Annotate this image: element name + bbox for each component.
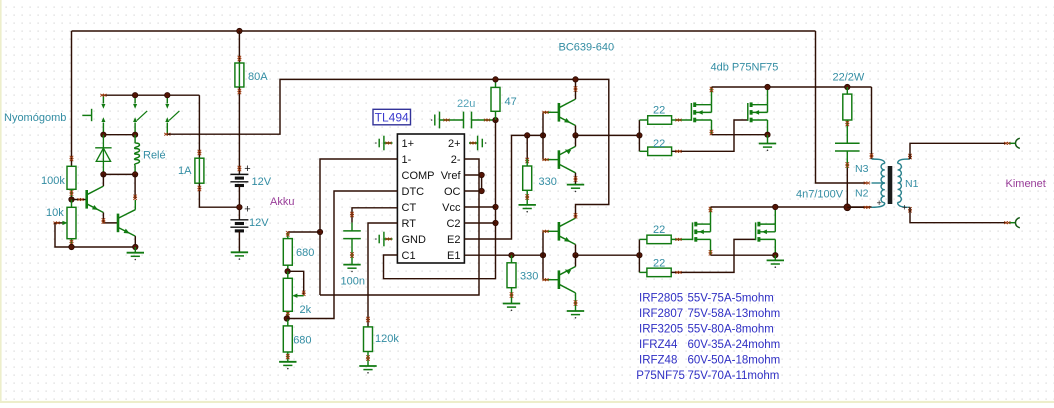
svg-text:Relé: Relé (143, 150, 166, 162)
wire Q5-Q6 base tie (542, 231, 544, 279)
svg-text:N3: N3 (855, 163, 869, 175)
svg-text:E2: E2 (447, 234, 460, 246)
resistor 120k (364, 327, 373, 352)
junction M4 drain (773, 204, 778, 209)
junction rail-K1b (165, 93, 170, 98)
transistor Q6 BC640 (558, 270, 561, 289)
svg-text:330: 330 (520, 271, 538, 283)
wire Q3-Q4 base tie (542, 112, 544, 159)
ground lower MOSFETs (774, 255, 776, 260)
connector output top (1004, 142, 1008, 145)
junction 100k-10k-base (69, 197, 74, 202)
capacitor 4n7/100V (835, 142, 860, 144)
svg-text:22: 22 (653, 105, 665, 117)
svg-text:2+: 2+ (448, 138, 461, 150)
svg-text:Akku: Akku (270, 196, 294, 208)
wire lower sources (711, 254, 776, 256)
resistor 22/2W (846, 87, 848, 94)
transistor Q2 (117, 214, 120, 233)
svg-text:2-: 2- (451, 154, 461, 166)
lower drain rail (711, 206, 872, 208)
junction top rail-80A (237, 28, 242, 33)
wire N2 bottom lead (847, 206, 866, 208)
ground Q4 (567, 184, 584, 186)
junction OC (479, 188, 484, 193)
resistor 680 upper (283, 239, 292, 266)
resistor 22 gate M1 (639, 119, 647, 121)
transistor Q3 BC639 (558, 103, 561, 122)
wire C1 wrap to C2/Vcc (384, 120, 496, 279)
wire switch rail to 1A fuse (198, 95, 200, 158)
svg-text:47: 47 (505, 96, 517, 108)
transistor Q4 BC640 (558, 150, 561, 169)
wire CT to 100n (352, 208, 397, 223)
resistor 22 gate M3 (639, 238, 647, 240)
wire M1 bulk-drain vertical (711, 105, 713, 113)
relay contact K1b (166, 95, 168, 103)
wire divider top (288, 231, 320, 233)
wire left rail down to 100k (71, 31, 73, 166)
wire upper sources (712, 134, 768, 136)
junction 680a-2k (285, 269, 290, 274)
canvas edge bottom (0, 401, 1054, 403)
wire 2- feedback (320, 159, 479, 295)
junction 10k-rail (69, 244, 74, 249)
junction K1a-relaycoil (132, 132, 137, 137)
junction gate splitter lower (637, 253, 642, 258)
ground upper MOSFETs (767, 135, 769, 144)
svg-text:+: + (244, 204, 250, 216)
junction 2k-680b-DTC (284, 316, 289, 321)
svg-text:22: 22 (653, 258, 665, 270)
wire Q5 emitter junction (575, 245, 577, 256)
svg-text:100n: 100n (341, 276, 365, 288)
junction upper base tie (540, 133, 545, 138)
trimmer 10k (67, 207, 76, 238)
svg-text:IRF280555V-75A-5mohm: IRF280555V-75A-5mohm (639, 292, 774, 304)
wire Q1 emitter to Q2 base (103, 213, 118, 223)
MOSFET M1 P75NF75 (690, 103, 692, 121)
svg-text:TL494: TL494 (375, 111, 409, 125)
wire Q4 collector down (575, 173, 577, 185)
canvas edge left (0, 0, 2, 403)
IC U1 TL494 body (397, 134, 464, 263)
svg-text:COMP: COMP (402, 170, 435, 182)
junction lower sources (773, 253, 778, 258)
capacitor stub at 2+ (485, 142, 487, 144)
svg-text:IRFZ4860V-50A-18mohm: IRFZ4860V-50A-18mohm (639, 354, 780, 366)
junction C2 (493, 220, 498, 225)
lead 680a bottom (287, 265, 289, 271)
svg-text:OC: OC (444, 186, 461, 198)
wire M3 drain to rail (710, 207, 712, 224)
junction 1- divider (317, 229, 322, 234)
svg-text:Vref: Vref (441, 170, 462, 182)
wire under button and K1a (103, 134, 135, 136)
transformer TR1 primary N3 (864, 182, 868, 185)
wire C2 pin (464, 222, 495, 224)
lead 2k bottom (287, 311, 289, 318)
transformer core (888, 166, 893, 204)
lead 680a top (287, 232, 289, 239)
wire gate splitter lower (638, 239, 640, 272)
junction rail-K1a (132, 93, 137, 98)
ground 330 upper (526, 190, 528, 205)
ground 330 lower (511, 288, 513, 304)
wire Q5 collector (575, 215, 577, 219)
ground Q6 (567, 310, 584, 312)
junction lower 330 (509, 253, 514, 258)
node +12V top rail (72, 30, 816, 32)
wire gate splitter upper (638, 120, 640, 151)
resistor 330 lower pulldown (511, 255, 513, 263)
wire M1 source down (711, 120, 713, 135)
10k wiper arrow (55, 222, 63, 224)
battery B1 12V (230, 173, 248, 175)
wire Q4 base (543, 159, 559, 161)
wire wiper down and bottom rail (55, 223, 135, 247)
wire Q2 emitter down (134, 236, 136, 247)
svg-text:4n7/100V: 4n7/100V (796, 189, 844, 201)
svg-text:100k: 100k (41, 175, 65, 187)
junction Vcc (493, 204, 498, 209)
junction upper 330 (525, 133, 530, 138)
svg-text:IFRZ4460V-35A-24mohm: IFRZ4460V-35A-24mohm (639, 339, 780, 351)
relay coil Rele (134, 135, 136, 144)
wire N1 bottom to output (910, 207, 1006, 222)
svg-text:P75NF7575V-70A-11mohm: P75NF7575V-70A-11mohm (636, 370, 779, 382)
svg-text:E1: E1 (447, 250, 460, 262)
wire coil to Q2 collector (134, 174, 136, 199)
pushbutton actuator (82, 114, 91, 116)
junction diode bottom (101, 172, 106, 177)
wire upper driver out to gates (576, 134, 640, 136)
MOSFET M3 P75NF75 (692, 222, 694, 240)
lead 10k bottom (71, 239, 73, 247)
svg-text:22/2W: 22/2W (833, 71, 865, 83)
svg-text:1A: 1A (178, 165, 192, 177)
wire DTC to divider (287, 191, 398, 319)
svg-text:C1: C1 (402, 250, 416, 262)
junction gate splitter upper (637, 133, 642, 138)
trimmer 2k (287, 271, 289, 278)
wire 80A to battery (238, 87, 240, 174)
connector output bottom (1004, 221, 1008, 224)
wire M4 source down (774, 239, 776, 255)
svg-text:N2: N2 (855, 188, 869, 200)
svg-text:Nyomógomb: Nyomógomb (4, 112, 66, 124)
capacitor stub at GND (375, 238, 377, 240)
transformer TR1 primary N2 (881, 183, 885, 203)
svg-text:2k: 2k (300, 304, 312, 316)
wire M2 drain to rail (767, 87, 769, 105)
junction button-diode (101, 132, 106, 137)
svg-text:80A: 80A (248, 71, 268, 83)
MOSFET M4 P75NF75 (755, 222, 757, 240)
wire base Q1 (72, 199, 87, 201)
svg-text:N1: N1 (905, 178, 919, 190)
diode D1 flyback (102, 135, 104, 175)
svg-text:Kimenet: Kimenet (1006, 178, 1046, 190)
wire Q6 emitter up (575, 255, 577, 266)
resistor 100k (67, 166, 76, 189)
resistor 22 gate M4 (639, 271, 647, 273)
transformer TR1 secondary N1 (898, 159, 910, 163)
svg-text:4db P75NF75: 4db P75NF75 (711, 62, 779, 74)
junction rail Q3 (573, 77, 578, 82)
junction lower driver out (573, 253, 578, 258)
svg-text:+: + (877, 198, 882, 208)
capacitor stub at 1+ (375, 142, 377, 144)
wire 22 to M2 gate (672, 120, 748, 151)
ground battery (238, 231, 240, 252)
wire 1A to battery junction (199, 183, 239, 207)
transistor Q1 (85, 190, 88, 209)
fuse 1A (195, 158, 204, 183)
transistor Q5 BC639 (558, 222, 561, 241)
fuse 80A (235, 63, 244, 87)
svg-text:12V: 12V (252, 176, 272, 188)
junction upper sources (765, 132, 770, 137)
capacitor C 100n (343, 230, 361, 232)
wire Q3 collector to rail (575, 79, 577, 99)
junction rail-47 (493, 77, 498, 82)
switch rail (103, 94, 199, 96)
ground 100n (343, 264, 360, 266)
wire Q1 collector (102, 174, 104, 186)
junction coil bottom (132, 172, 137, 177)
svg-text:C2: C2 (446, 218, 460, 230)
junction snubber-N2 (844, 204, 851, 211)
battery B2 12V (230, 219, 248, 221)
svg-text:12V: 12V (249, 217, 269, 229)
resistor 330 upper pulldown (526, 135, 528, 159)
svg-text:10k: 10k (46, 207, 64, 219)
wire M4 drain to rail (774, 207, 776, 224)
resistor 22 gate M2 (639, 150, 647, 152)
ground under Q2 (134, 247, 136, 253)
wire E2 to upper driver (464, 135, 543, 239)
relay contact K1a (134, 95, 136, 103)
wire 22 to M4 gate (671, 239, 755, 272)
svg-text:GND: GND (402, 234, 427, 246)
wire RT to 120k (368, 223, 397, 327)
wire M2 source down (767, 120, 769, 135)
svg-text:22u: 22u (457, 98, 475, 110)
pushbutton S1 contact (102, 95, 104, 103)
svg-text:1+: 1+ (402, 138, 415, 150)
wire Q6 base (543, 279, 559, 281)
junction battery midpoint (237, 205, 242, 210)
wire diode-coil bottoms (103, 173, 135, 175)
svg-text:CT: CT (402, 202, 417, 214)
wire Q2 collector lead (134, 200, 136, 210)
MOSFET M2 P75NF75 (747, 103, 749, 121)
wire Q6 collector down (575, 293, 577, 311)
svg-text:DTC: DTC (402, 186, 425, 198)
wire N1 top to output (910, 143, 1006, 159)
svg-text:680: 680 (296, 247, 314, 259)
wire Q3 emitter junction (575, 126, 577, 136)
upper drain rail (712, 86, 872, 88)
svg-text:1-: 1- (402, 154, 412, 166)
ground 680 lower (287, 352, 289, 362)
svg-text:RT: RT (402, 218, 417, 230)
junction M2 drain (765, 84, 770, 89)
svg-text:22: 22 (653, 138, 665, 150)
capacitor C 22u with stub (431, 119, 433, 121)
wire drain rail to N3 (871, 87, 873, 159)
wire 1- to divider top and feedback (320, 159, 397, 295)
junction upper driver out (573, 133, 578, 138)
svg-text:Vcc: Vcc (442, 202, 461, 214)
resistor 47 (495, 79, 497, 87)
svg-text:IRF320555V-80A-8mohm: IRF320555V-80A-8mohm (639, 323, 774, 335)
wire rail to 80A fuse (238, 31, 240, 63)
wire Q4 emitter up (575, 135, 577, 146)
ground 120k (367, 352, 369, 367)
resistor 680 lower (287, 319, 289, 326)
wire M1 drain to rail (711, 87, 713, 105)
label TL494 frame (373, 109, 411, 125)
lead 100k bottom (71, 189, 73, 199)
wire Vcc pin (464, 206, 495, 208)
junction lower base tie (540, 253, 545, 258)
wire K1b to switched rail riser (167, 79, 609, 214)
svg-text:680: 680 (293, 335, 311, 347)
svg-text:+: + (902, 203, 907, 213)
junction Q2 emitter-rail (133, 244, 138, 249)
junction 22u-47-Vcc (493, 117, 498, 122)
svg-text:330: 330 (539, 176, 557, 188)
wire between batteries (238, 186, 240, 220)
wire Q3 base (543, 111, 559, 113)
svg-text:BC639-640: BC639-640 (559, 42, 615, 54)
wire E1 to lower driver (464, 254, 543, 256)
wire battery+ to transformer center tap (816, 31, 867, 183)
svg-text:22: 22 (653, 224, 665, 236)
junction Vref (479, 172, 484, 177)
wire lower driver out to gates (576, 254, 640, 256)
svg-text:120k: 120k (375, 333, 399, 345)
wire Q5 base (543, 230, 559, 232)
svg-text:IRF280775V-58A-13mohm: IRF280775V-58A-13mohm (639, 308, 780, 320)
wire Vref-OC tie (464, 175, 481, 191)
wire M3 source down (710, 239, 712, 255)
wire wiper 2k (288, 271, 304, 295)
svg-text:+: + (244, 163, 250, 175)
junction 22/2W top (845, 84, 850, 89)
